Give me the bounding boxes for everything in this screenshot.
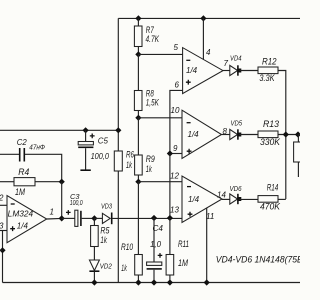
node detector row / C4 — [151, 215, 157, 221]
node rail/R11 — [167, 279, 173, 285]
wire pin10 row — [138, 117, 182, 119]
svg-text:C5: C5 — [98, 136, 109, 145]
ground C5 — [80, 169, 90, 171]
op-amp U1.2 (pins 5,6,7) — [183, 48, 223, 94]
svg-text:VD6: VD6 — [230, 184, 243, 193]
svg-text:C4: C4 — [153, 224, 164, 233]
wire pin9 stub — [170, 153, 182, 155]
svg-text:6: 6 — [175, 81, 180, 90]
node left bias stub — [0, 247, 6, 253]
svg-text:1k: 1k — [146, 164, 152, 174]
resistor R9 — [137, 118, 139, 155]
svg-text:VD4: VD4 — [230, 54, 242, 63]
node C3 / R5 / VD3 junction — [91, 215, 97, 221]
svg-text:LM324: LM324 — [8, 210, 34, 219]
diode VD5 — [222, 134, 230, 136]
op-amp U1.3 (pins 10,9,8) — [182, 110, 222, 158]
node bias rail / x118 bus — [115, 127, 121, 133]
wire pin3 input — [0, 230, 7, 232]
svg-text:R12: R12 — [262, 57, 277, 67]
wire detector column x=170 — [169, 154, 171, 219]
svg-text:1,5K: 1,5K — [146, 98, 160, 108]
svg-text:R10: R10 — [121, 242, 133, 252]
svg-text:1M: 1M — [15, 187, 25, 197]
resistor R6 — [114, 151, 122, 171]
svg-text:2: 2 — [0, 194, 4, 203]
wire pin6 stub — [170, 90, 183, 153]
svg-text:R14: R14 — [267, 183, 279, 193]
op-amp U1.1 LM324 (pins 2,3,1) — [7, 196, 47, 243]
node bias rail / C5 — [82, 127, 88, 133]
resistor R5 — [93, 218, 95, 225]
svg-text:VD3: VD3 — [101, 202, 113, 211]
wire left bias rail y=130 — [0, 129, 118, 131]
svg-text:1/4: 1/4 — [188, 195, 200, 204]
diode VD4 — [223, 70, 230, 72]
svg-text:VD4-VD6 1N4148(75Е: VD4-VD6 1N4148(75Е — [216, 254, 300, 264]
resistor R13 — [258, 131, 278, 138]
svg-text:1/4: 1/4 — [186, 66, 198, 75]
svg-text:1/4: 1/4 — [17, 222, 29, 231]
wire pin4 power drop — [202, 18, 204, 59]
svg-text:1/4: 1/4 — [188, 130, 200, 139]
capacitor C2 — [0, 153, 19, 155]
svg-text:12: 12 — [170, 172, 179, 181]
node summing junction R12/R13/R14 — [283, 131, 289, 137]
node pin1 output junction — [59, 215, 65, 221]
svg-text:9: 9 — [173, 144, 178, 153]
svg-text:R11: R11 — [178, 239, 189, 249]
node detector row / R11 column — [167, 215, 173, 221]
resistor R14 — [258, 196, 278, 203]
node R9-R10 divider tap — [135, 179, 141, 185]
wire left vertical bus x=118 — [117, 18, 119, 151]
resistor R8 — [137, 54, 139, 90]
wire pin2 input — [0, 204, 7, 206]
diode VD2 to ground — [89, 260, 99, 271]
capacitor C3 electrolytic — [62, 217, 75, 219]
node R8-R9 divider tap — [135, 115, 141, 121]
svg-text:4.7K: 4.7K — [146, 34, 160, 44]
svg-text:R6: R6 — [126, 150, 134, 160]
node top rail / pin4 junction — [200, 15, 206, 21]
svg-text:R4: R4 — [18, 167, 29, 177]
diode VD6 — [222, 198, 230, 200]
wire feedback column to output — [61, 182, 63, 218]
resistor R10 — [137, 182, 139, 255]
svg-text:470K: 470K — [260, 201, 281, 211]
wire pin12 row — [138, 181, 182, 183]
svg-text:100,0: 100,0 — [70, 198, 84, 207]
svg-text:1M: 1M — [178, 258, 188, 268]
svg-text:5: 5 — [174, 43, 179, 52]
svg-text:1: 1 — [50, 208, 54, 217]
svg-text:4: 4 — [206, 48, 211, 57]
wire pin11 ground drop — [206, 208, 208, 283]
svg-text:47нФ: 47нФ — [29, 142, 45, 151]
resistor R15 output (clipped at edge) — [297, 135, 299, 143]
svg-text:1,0: 1,0 — [150, 240, 162, 249]
capacitor C4 electrolytic — [153, 218, 155, 262]
wire bottom ground rail — [3, 282, 301, 284]
node output tap — [295, 131, 301, 137]
svg-text:14: 14 — [217, 191, 226, 200]
resistor R4 feedback — [0, 181, 14, 183]
node rail/R5-VD2 — [91, 279, 97, 285]
diode VD3 — [94, 217, 102, 219]
node R7-R8 divider tap — [135, 51, 141, 57]
node pin9 / detector column — [167, 150, 173, 156]
node R4 / C2 feedback junction — [59, 179, 65, 185]
svg-text:330K: 330K — [260, 137, 281, 147]
resistor R11 — [169, 218, 171, 255]
svg-text:VD5: VD5 — [231, 119, 243, 128]
svg-text:1k: 1k — [100, 235, 107, 245]
resistor R7 — [137, 18, 139, 26]
wire top supply rail — [118, 17, 300, 19]
svg-text:1k: 1k — [121, 263, 127, 273]
svg-text:R9: R9 — [146, 154, 155, 164]
node top rail / R7 junction — [135, 15, 141, 21]
resistor R12 — [258, 67, 278, 74]
svg-text:1k: 1k — [126, 160, 132, 170]
svg-text:C2: C2 — [17, 138, 28, 147]
svg-text:3.3K: 3.3K — [259, 73, 275, 83]
svg-text:7: 7 — [224, 59, 229, 68]
node rail/pin11 — [204, 279, 210, 285]
wire pin5 row — [138, 53, 182, 55]
wire pin3 ground column — [2, 231, 4, 283]
svg-text:3: 3 — [0, 222, 4, 231]
svg-text:13: 13 — [170, 206, 179, 215]
capacitor C5 electrolytic — [85, 130, 87, 141]
node rail/R10 — [135, 279, 141, 285]
svg-text:R13: R13 — [263, 119, 279, 129]
svg-text:100,0: 100,0 — [91, 152, 110, 161]
wire pin1 output — [47, 217, 62, 220]
svg-text:10: 10 — [171, 106, 180, 115]
op-amp U1.4 (pins 12,13,14) — [182, 176, 222, 223]
node rail/C4 — [151, 279, 157, 285]
svg-text:VD2: VD2 — [100, 261, 113, 270]
